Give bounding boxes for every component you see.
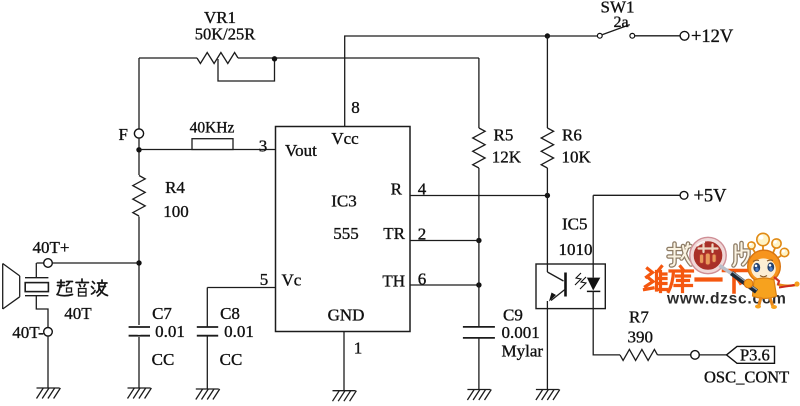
svg-text:TH: TH (382, 272, 405, 291)
svg-text:1010: 1010 (559, 240, 593, 259)
svg-text:0.01: 0.01 (155, 322, 185, 341)
svg-text:C9: C9 (503, 306, 523, 325)
svg-text:3: 3 (259, 137, 268, 156)
svg-text:+12V: +12V (691, 27, 734, 47)
svg-text:390: 390 (628, 328, 654, 347)
svg-text:40T: 40T (64, 304, 92, 323)
svg-text:R5: R5 (494, 126, 514, 145)
svg-text:R7: R7 (629, 308, 649, 327)
svg-text:Vc: Vc (282, 271, 302, 290)
svg-text:R6: R6 (562, 126, 582, 145)
svg-text:1: 1 (354, 339, 363, 358)
svg-text:R4: R4 (165, 178, 185, 197)
svg-text:40T-: 40T- (12, 323, 44, 342)
svg-text:C7: C7 (152, 304, 172, 323)
svg-text:GND: GND (328, 306, 365, 325)
svg-text:2: 2 (418, 225, 427, 244)
svg-text:C8: C8 (220, 304, 240, 323)
svg-text:F: F (119, 125, 128, 144)
svg-text:TR: TR (383, 224, 405, 243)
svg-text:CC: CC (220, 350, 243, 369)
svg-text:40T+: 40T+ (33, 238, 70, 257)
svg-text:Vcc: Vcc (331, 129, 359, 148)
svg-text:0.001: 0.001 (502, 323, 540, 342)
svg-text:5: 5 (260, 270, 269, 289)
svg-text:IC5: IC5 (562, 215, 588, 234)
svg-text:10K: 10K (562, 148, 592, 167)
svg-text:Vout: Vout (285, 141, 317, 160)
svg-text:P3.6: P3.6 (740, 346, 770, 365)
svg-text:12K: 12K (492, 148, 522, 167)
svg-text:100: 100 (163, 202, 189, 221)
svg-text:IC3: IC3 (331, 192, 357, 211)
svg-text:555: 555 (333, 224, 359, 243)
svg-text:CC: CC (152, 350, 175, 369)
svg-text:6: 6 (418, 270, 427, 289)
svg-text:R: R (391, 180, 403, 199)
svg-text:2a: 2a (613, 14, 628, 31)
svg-text:50K/25R: 50K/25R (195, 25, 256, 44)
svg-text:OSC_CONT: OSC_CONT (704, 368, 789, 387)
svg-text:40KHz: 40KHz (190, 120, 235, 137)
svg-text:+5V: +5V (694, 187, 728, 207)
svg-text:8: 8 (351, 98, 360, 117)
svg-text:0.01: 0.01 (224, 322, 254, 341)
svg-text:4: 4 (418, 180, 427, 199)
svg-text:Mylar: Mylar (502, 342, 544, 361)
